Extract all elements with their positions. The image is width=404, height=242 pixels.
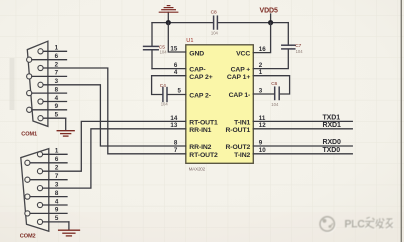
svg-text:C8: C8 xyxy=(211,9,217,15)
wire U1 pin11 to TXD1 xyxy=(253,120,352,122)
COM1 pin 4 xyxy=(38,95,67,104)
svg-text:5: 5 xyxy=(55,215,59,222)
wire U1 pin15 to ground rail xyxy=(168,23,186,52)
svg-text:5: 5 xyxy=(178,88,182,95)
COM2 pin 5 xyxy=(37,215,69,224)
COM1 pin 1 xyxy=(38,45,67,54)
svg-text:6: 6 xyxy=(55,53,59,60)
COM1 pin 7 xyxy=(27,70,67,79)
svg-text:1: 1 xyxy=(55,45,59,52)
COM1 pin 2 xyxy=(38,61,59,70)
COM1 pin 5 xyxy=(38,112,66,121)
svg-text:RT-OUT2: RT-OUT2 xyxy=(189,152,218,159)
svg-text:VCC: VCC xyxy=(236,51,250,58)
svg-text:3: 3 xyxy=(55,78,59,85)
capacitor C6 xyxy=(271,81,279,107)
svg-text:CAP 1-: CAP 1- xyxy=(229,92,251,99)
wire U1 pin2 to C7 xyxy=(253,49,288,68)
svg-text:R-OUT2: R-OUT2 xyxy=(225,144,250,151)
svg-text:7: 7 xyxy=(174,147,178,154)
svg-text:6: 6 xyxy=(55,156,59,163)
svg-text:RXD1: RXD1 xyxy=(323,122,341,129)
svg-text:U1: U1 xyxy=(186,38,193,44)
svg-text:9: 9 xyxy=(259,139,263,146)
wire C8 right plate to VDD5 junction xyxy=(218,22,270,24)
ground (top earth symbol) xyxy=(159,6,178,23)
COM1 pin 8 xyxy=(27,86,67,95)
COM1 pin 6 xyxy=(27,53,67,62)
wire U1 pin8 to COM1 pin3 xyxy=(43,85,186,146)
svg-text:3: 3 xyxy=(55,181,59,188)
svg-text:104: 104 xyxy=(271,102,279,107)
svg-text:C6: C6 xyxy=(271,81,277,87)
svg-text:RXD0: RXD0 xyxy=(323,139,341,146)
svg-text:10: 10 xyxy=(259,147,266,154)
svg-text:RT-OUT1: RT-OUT1 xyxy=(189,119,218,126)
wire U1 pin10 to TXD0 xyxy=(253,153,352,155)
wire ground rail left (C5 branch to ground junction) xyxy=(152,22,168,24)
wire COM1 pin5 to ground xyxy=(65,118,67,130)
svg-text:T-IN1: T-IN1 xyxy=(234,119,250,126)
ground (COM2) xyxy=(59,230,80,236)
COM2 pin 8 xyxy=(25,190,67,199)
wire U1 pin1 loop to C6 xyxy=(253,76,289,94)
svg-text:8: 8 xyxy=(174,139,178,146)
capacitor C7 (VDD5 to pin2) xyxy=(282,23,303,54)
capacitor C4 xyxy=(160,83,169,107)
svg-text:4: 4 xyxy=(55,198,59,205)
svg-text:104: 104 xyxy=(211,30,219,35)
wire U1 pin13 to COM2 pin3 xyxy=(43,129,186,188)
ground (COM1) xyxy=(57,131,74,136)
capacitor C8 xyxy=(211,9,219,35)
svg-text:T-IN2: T-IN2 xyxy=(234,152,250,159)
svg-text:TXD1: TXD1 xyxy=(323,115,341,122)
wire U1 pin12 to RXD1 xyxy=(253,128,352,130)
svg-text:CAP 2-: CAP 2- xyxy=(189,92,211,99)
svg-text:PLC: PLC xyxy=(345,218,366,230)
wire U1 pin9 to RXD0 xyxy=(253,145,352,147)
svg-text:COM1: COM1 xyxy=(21,132,37,138)
wire C6 to U1 pin3 xyxy=(253,93,274,95)
svg-text:CAP 2+: CAP 2+ xyxy=(189,74,212,81)
svg-text:4: 4 xyxy=(55,95,59,102)
svg-text:13: 13 xyxy=(170,122,177,129)
op-amp U1 IC body (MAX232 level converter) xyxy=(186,45,254,164)
svg-text:12: 12 xyxy=(259,122,266,129)
svg-text:104: 104 xyxy=(160,50,168,55)
power net VDD5 xyxy=(260,8,278,23)
wire U1 pin16 to VDD5 junction xyxy=(253,23,270,53)
svg-text:RR-IN2: RR-IN2 xyxy=(189,144,211,151)
svg-text:8: 8 xyxy=(55,190,59,197)
svg-text:104: 104 xyxy=(296,49,304,54)
COM2 pin 3 xyxy=(37,181,58,190)
svg-text:TXD0: TXD0 xyxy=(323,147,341,154)
svg-text:C4: C4 xyxy=(160,83,166,89)
COM2 pin 1 xyxy=(37,148,67,157)
COM2 pin 6 xyxy=(25,156,67,165)
svg-text:8: 8 xyxy=(55,86,59,93)
COM1 pin 9 xyxy=(27,103,67,112)
svg-text:9: 9 xyxy=(55,103,59,110)
wire COM2 pin5 to ground xyxy=(68,222,70,230)
svg-text:104: 104 xyxy=(161,102,169,107)
wire C5 to U1 pin6 xyxy=(152,68,186,70)
wire U1 pin4 loop to C4 xyxy=(152,76,186,95)
svg-text:GND: GND xyxy=(189,51,204,58)
svg-text:5: 5 xyxy=(55,112,59,119)
COM2 pin 9 xyxy=(25,207,67,216)
svg-text:2: 2 xyxy=(55,165,59,172)
svg-text:7: 7 xyxy=(55,70,59,77)
svg-text:CAP 1+: CAP 1+ xyxy=(227,74,250,81)
capacitor C5 (ground to U1 pin6) xyxy=(144,23,168,69)
COM2 pin 7 xyxy=(25,173,67,182)
svg-text:7: 7 xyxy=(55,173,59,180)
svg-text:9: 9 xyxy=(55,207,59,214)
svg-text:CAP-: CAP- xyxy=(189,67,205,74)
svg-text:VDD5: VDD5 xyxy=(260,8,278,15)
junction (ground node) xyxy=(166,20,171,25)
COM1 pin 3 xyxy=(38,78,59,87)
connector COM2 body xyxy=(21,149,49,232)
svg-text:RR-IN1: RR-IN1 xyxy=(189,127,211,134)
wire C4 to U1 pin5 xyxy=(168,94,186,96)
svg-text:CAP +: CAP + xyxy=(231,67,251,74)
junction (VDD5 node) xyxy=(268,20,273,25)
svg-text:1: 1 xyxy=(55,148,59,155)
COM2 pin 4 xyxy=(37,198,67,207)
wire U1 pin14 to COM2 pin2 xyxy=(43,121,186,171)
wire ground junction to C8 left plate xyxy=(168,22,212,24)
svg-text:R-OUT1: R-OUT1 xyxy=(225,127,250,134)
svg-text:COM2: COM2 xyxy=(20,234,36,240)
wire VDD5 junction to C7 stem xyxy=(271,22,289,24)
COM2 pin 2 xyxy=(37,165,58,174)
wire U1 pin7 to COM1 pin2 xyxy=(43,68,186,154)
svg-text:2: 2 xyxy=(55,61,59,68)
svg-text:MAX202: MAX202 xyxy=(189,167,206,172)
connector COM1 body xyxy=(27,41,48,126)
